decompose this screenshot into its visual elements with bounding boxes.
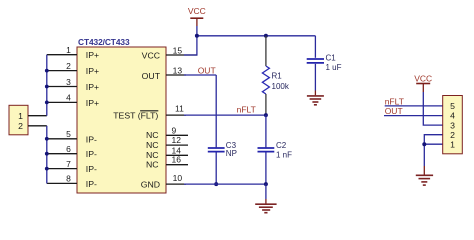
junction dot pin4 bus: [45, 101, 49, 105]
svg-text:VCC: VCC: [142, 51, 160, 61]
svg-text:4: 4: [450, 111, 455, 121]
svg-text:NC: NC: [146, 159, 159, 169]
pin 12 stub NC: [166, 144, 188, 146]
svg-text:2: 2: [18, 121, 23, 131]
svg-text:2: 2: [450, 130, 455, 140]
svg-text:OUT: OUT: [385, 106, 403, 116]
wire nFLT right: [385, 105, 444, 107]
svg-text:2: 2: [66, 61, 71, 71]
VCC bar right: [416, 83, 430, 85]
junction dot pin3 bus: [45, 85, 49, 89]
svg-text:5: 5: [450, 101, 455, 111]
svg-text:1: 1: [18, 111, 23, 121]
VCC bar top: [190, 17, 203, 19]
capacitor C3: [208, 147, 225, 149]
VCC stub right red: [422, 84, 424, 93]
ground below C1: [314, 91, 316, 96]
svg-text:5: 5: [66, 129, 71, 139]
pin 2 stub: [47, 70, 77, 72]
wire conn pin1 right: [424, 143, 444, 145]
wire OUT right: [384, 115, 444, 117]
svg-text:9: 9: [172, 125, 177, 135]
svg-text:IP-: IP-: [86, 149, 97, 159]
junction dot nFLT/R1/C2: [264, 113, 268, 117]
wire conn pin2 right: [424, 135, 444, 166]
capacitor C2: [265, 115, 267, 147]
connector J2 right body: [443, 96, 463, 154]
svg-text:4: 4: [66, 93, 71, 103]
pin 1 stub: [47, 54, 77, 56]
wire VCC rail horizontal: [197, 35, 316, 37]
svg-text:R1: R1: [272, 71, 283, 80]
wire GND net pin10 to C2: [184, 183, 266, 185]
pin 13 stub: [166, 74, 186, 76]
svg-text:15: 15: [173, 45, 183, 55]
pin 7 stub: [47, 168, 77, 170]
svg-text:OUT: OUT: [198, 65, 216, 75]
svg-text:7: 7: [66, 159, 71, 169]
wire IP- bus vertical: [46, 126, 48, 184]
pin 15 stub: [166, 54, 198, 56]
svg-text:nFLT: nFLT: [385, 96, 404, 106]
svg-text:OUT: OUT: [142, 71, 161, 81]
svg-text:IP+: IP+: [86, 50, 99, 60]
connector J1 left body: [9, 105, 28, 135]
junction dot VCC/pin15: [195, 34, 199, 38]
svg-text:C2: C2: [276, 141, 287, 150]
svg-text:1: 1: [450, 140, 455, 150]
svg-text:NC: NC: [146, 140, 159, 150]
svg-text:12: 12: [172, 135, 182, 145]
wire nFLT pin11 to R1/C2: [184, 114, 266, 116]
op-amp U1 CT432/CT433 IC body: [77, 47, 166, 193]
wire OUT net pin13 to C3 column: [184, 74, 216, 76]
svg-text:1 uF: 1 uF: [326, 63, 342, 72]
pin 9 stub NC: [166, 134, 188, 136]
svg-text:NP: NP: [226, 149, 237, 158]
svg-text:11: 11: [175, 103, 184, 113]
svg-text:CT432/CT433: CT432/CT433: [78, 37, 130, 47]
svg-text:IP+: IP+: [86, 66, 99, 76]
capacitor C1: [314, 36, 316, 58]
junction dot pin6 bus: [45, 152, 49, 156]
svg-text:8: 8: [66, 174, 71, 184]
svg-text:13: 13: [173, 65, 183, 75]
wire IP+ bus vertical: [46, 55, 48, 116]
wire OUT vertical down to C3: [215, 75, 217, 147]
svg-text:nFLT: nFLT: [237, 104, 256, 114]
svg-text:IP-: IP-: [86, 134, 97, 144]
VCC stub red: [196, 18, 198, 26]
svg-text:GND: GND: [141, 180, 160, 190]
ground below C2: [265, 184, 267, 199]
resistor R1: [265, 36, 267, 66]
wire VCC right vertical: [423, 92, 444, 125]
junction dot pin2 bus: [45, 69, 49, 73]
svg-text:IP-: IP-: [86, 164, 97, 174]
svg-text:1: 1: [66, 45, 71, 55]
pin 4 stub: [47, 101, 77, 103]
junction dot VCC/R1: [264, 34, 268, 38]
svg-text:1 nF: 1 nF: [276, 150, 292, 159]
svg-text:3: 3: [450, 120, 455, 130]
svg-text:IP+: IP+: [86, 98, 99, 108]
pin 11 FLT overline: [140, 110, 158, 112]
svg-text:NC: NC: [146, 130, 159, 140]
svg-text:VCC: VCC: [414, 74, 432, 84]
svg-text:IP-: IP-: [86, 179, 97, 189]
svg-text:16: 16: [172, 155, 182, 165]
svg-text:3: 3: [66, 77, 71, 87]
junction dot pin5 bus: [45, 137, 49, 141]
pin 6 stub: [47, 153, 77, 155]
pin 14 stub NC: [166, 154, 188, 156]
ground right: [423, 166, 425, 175]
junction dot GND/C2: [264, 182, 268, 186]
pin 11 stub: [166, 114, 186, 116]
junction dot C3/GND: [214, 182, 218, 186]
svg-text:100k: 100k: [272, 82, 290, 91]
svg-text:C1: C1: [326, 54, 337, 63]
wire pin15 to VCC (blue part): [184, 54, 198, 56]
pin 8 stub: [47, 182, 77, 184]
svg-text:10: 10: [173, 173, 183, 183]
pin 3 stub: [47, 86, 77, 88]
pin 5 stub: [47, 138, 77, 140]
pin 16 stub NC: [166, 164, 188, 166]
junction dot right gnd: [422, 142, 426, 146]
wire VCC vertical to pin15: [196, 26, 198, 55]
connector J1 pin 2 wire: [28, 125, 47, 127]
svg-text:VCC: VCC: [188, 6, 206, 16]
svg-text:6: 6: [66, 144, 71, 154]
connector J1 pin 1 wire: [28, 115, 47, 117]
junction dot pin7 bus: [45, 167, 49, 171]
pin 10 stub: [166, 183, 186, 185]
svg-text:TEST (FLT): TEST (FLT): [113, 110, 158, 120]
svg-text:IP+: IP+: [86, 82, 99, 92]
